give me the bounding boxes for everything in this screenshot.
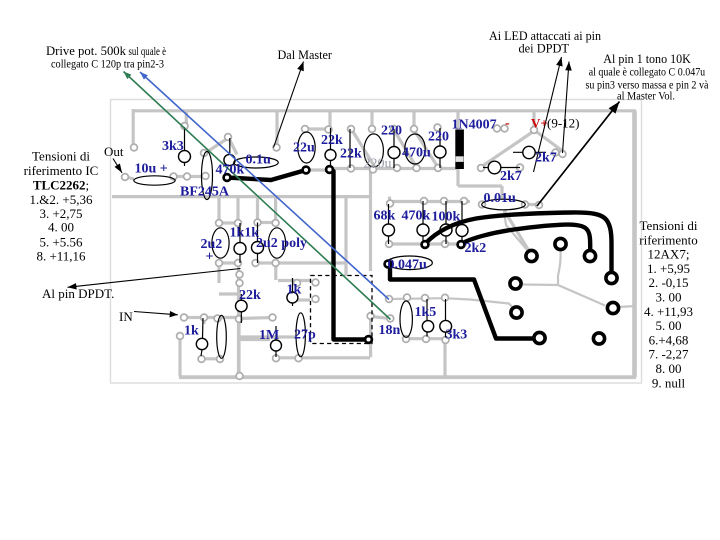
tube socket 12AX7 pins [510,238,619,344]
svg-text:4. +11,93: 4. +11,93 [644,304,693,319]
capacitor 0.01u [482,199,526,210]
svg-text:2k7: 2k7 [500,169,522,184]
resistor 1M [271,326,282,357]
svg-text:2k7: 2k7 [535,151,557,166]
svg-text:2u2 poly: 2u2 poly [256,236,307,251]
resistor 22k (third) [236,294,248,323]
svg-text:riferimento IC: riferimento IC [24,163,99,178]
svg-text:al quale è collegato C 0.047u: al quale è collegato C 0.047u [589,67,706,79]
svg-text:(9-12): (9-12) [547,116,580,131]
svg-text:Al pin DPDT.: Al pin DPDT. [42,286,114,301]
svg-text:Al pin 1 tono 10K: Al pin 1 tono 10K [603,51,691,66]
svg-text:1M: 1M [259,328,279,343]
solder pads (bottom rows) [177,294,449,379]
wire: thick jumper from 470k pad to 22u node [227,170,306,180]
capacitor 18n [400,301,412,337]
svg-text:8. +11,16: 8. +11,16 [36,249,86,264]
resistor 2k7 (lower) [483,161,520,174]
svg-text:1k5: 1k5 [415,305,437,320]
svg-text:Tensioni di: Tensioni di [32,149,90,164]
wire: arrow from Out label [113,159,122,173]
svg-text:22u: 22u [293,141,315,156]
svg-text:Out: Out [104,144,124,159]
svg-text:1N4007: 1N4007 [452,118,497,133]
svg-text:V+: V+ [531,116,548,131]
svg-text:12AX7;: 12AX7; [648,247,690,262]
svg-text:220: 220 [381,124,402,139]
resistor 1k (DPDT) [287,278,298,306]
resistor 2k2 [456,201,468,244]
svg-text:100k: 100k [432,210,461,225]
svg-text:8. 00: 8. 00 [656,361,682,376]
transistor BF245A [202,152,213,200]
wire: thick jumper 2k2 to socket pin (outer) [425,212,612,270]
solder pads (middle rows) [216,198,543,303]
svg-text:dei DPDT: dei DPDT [519,41,570,56]
resistor 220 (second) [434,128,446,168]
svg-text:sul quale è: sul quale è [129,46,167,58]
svg-text:1k: 1k [287,283,302,298]
junction terminals of thick wires [224,166,465,343]
resistor 2k7 (upper) [513,146,546,158]
svg-text:Tensioni di: Tensioni di [640,218,698,233]
wire: blue arrow to drive pot [140,72,389,300]
resistor 1k (input) [196,318,207,356]
svg-text:1k: 1k [184,324,199,339]
svg-text:IN: IN [119,309,133,324]
svg-text:1.&2. +5,36: 1.&2. +5,36 [30,192,93,207]
wire: arrow to Al pin 1 tono note [537,102,620,207]
svg-text:22k: 22k [340,147,362,162]
label 12AX7 voltage reference block [639,218,698,390]
svg-text:27p: 27p [294,328,316,343]
PCB board outline [111,100,642,384]
svg-text:22k: 22k [239,288,261,303]
capacitor 0.1u [234,157,279,168]
svg-text:220: 220 [428,130,449,145]
resistor 22k (first) [325,128,336,168]
svg-text:68k: 68k [374,209,396,224]
svg-text:3k3: 3k3 [446,328,468,343]
svg-text:5. 00: 5. 00 [656,318,682,333]
resistor 220 (first) [388,129,400,168]
svg-text:riferimento: riferimento [639,232,697,247]
svg-text:BF245A: BF245A [180,185,230,200]
svg-text:5. +5.56: 5. +5.56 [39,235,83,250]
wire: gray traces of tube socket [389,211,636,309]
capacitor 470u [405,134,425,164]
diode 1N4007 [455,130,464,170]
svg-text:1. +5,95: 1. +5,95 [647,261,690,276]
svg-text:0.01u: 0.01u [484,191,517,206]
capacitor 220u [364,134,383,167]
svg-text:Dal Master: Dal Master [278,47,333,62]
svg-text:al Master Vol.: al Master Vol. [617,91,675,103]
resistor 3k3 (second) [440,299,452,338]
svg-text:18n: 18n [379,323,401,338]
capacitor input [217,315,227,358]
svg-text:0.047u: 0.047u [388,258,428,273]
svg-text:3k3: 3k3 [162,139,184,154]
label TLC2262 voltage reference block [24,149,99,264]
wire: gray trace frame around board [133,109,636,377]
svg-text:1k1k: 1k1k [230,226,260,241]
svg-text:collegato C 120p tra pin2-3: collegato C 120p tra pin2-3 [51,59,164,71]
svg-text:-: - [505,116,510,131]
svg-text:470u: 470u [402,146,431,161]
svg-text:2k2: 2k2 [465,241,487,256]
resistor 100k [440,201,452,244]
svg-text:3. 00: 3. 00 [656,290,682,305]
svg-text:470k: 470k [402,209,431,224]
resistor 1k5 [422,299,433,337]
svg-text:6.+4,68: 6.+4,68 [649,332,689,347]
wire: arrow to Dal Master [274,62,304,148]
capacitor 2u2 poly [268,228,285,258]
svg-text:9. null: 9. null [652,375,686,390]
resistor 470k (gate) [224,138,235,166]
capacitor 27p [296,313,305,357]
svg-text:TLC2262;: TLC2262; [33,178,89,193]
wire: arrow from IN label [134,311,178,317]
wire: green arrow to drive pot [124,72,391,320]
resistor 68k [383,204,395,244]
capacitor 10u [134,176,175,185]
svg-text:220u: 220u [364,157,392,172]
resistor 22k (second) [349,129,351,168]
wire: gray trace network [112,111,564,377]
svg-text:2. -0,15: 2. -0,15 [648,275,688,290]
svg-text:+: + [206,250,214,265]
svg-text:4. 00: 4. 00 [48,220,74,235]
capacitor 0.047u [387,256,433,270]
svg-text:10u +: 10u + [135,162,168,177]
resistor 470k (second) [417,201,429,244]
wire: thick jumper 100k to socket pin (inner) [461,225,590,249]
capacitor 22u [298,132,315,163]
resistor 1k 1k pair [234,223,264,264]
svg-text:Drive pot. 500k: Drive pot. 500k [46,43,126,58]
wire: arrow to LED note (right) [563,62,572,154]
solder pads (top rows) [122,123,566,181]
wire: thick jumper 0.047u to socket pin 8 [390,266,533,339]
capacitor 2u2 [212,228,229,258]
svg-text:0.1u: 0.1u [246,153,272,168]
resistor 3k3 (input stage) [179,127,191,166]
svg-text:7. -2,27: 7. -2,27 [648,347,689,362]
wire: thick vertical jumper down to DPDT [334,171,366,340]
DPDT dashed outline [311,276,373,344]
svg-text:470k: 470k [216,163,245,178]
wire: arrow to LED note (left) [534,57,563,172]
wire: arrow to Al pin DPDT [68,269,241,290]
